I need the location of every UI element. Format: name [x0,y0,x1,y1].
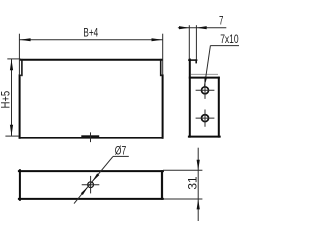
hole centreline horizontal [82,184,100,186]
31 arrow bottom (outside, pointing up) [197,199,200,209]
H+5 dimension line [11,59,13,136]
hole centreline vertical [90,176,92,194]
H+5 arrow bottom [10,125,13,136]
B+4 dimension line [19,39,162,41]
lower-right edge [162,75,164,137]
Ø7 leader line [74,156,113,203]
step jog left [20,74,22,76]
slot 7x10 on bottom edge [81,135,99,138]
bottom edge [19,137,164,139]
7 arrow right (outside) [196,26,206,29]
7x10 leader line [204,46,210,87]
bracket slot hole lower [202,115,209,122]
centreline vertical lower [204,110,206,127]
Ø7 arrow lower [81,187,88,196]
bracket body top edge [190,77,219,79]
31 extension line bottom [163,198,202,200]
7-dim extension line left [188,25,190,59]
Ø7 leader shoulder [113,155,129,157]
svg-text:7: 7 [219,14,224,28]
centreline horizontal upper [196,89,215,91]
7 dimension line [178,27,226,29]
bottom view left edge [19,170,21,200]
front view upper-left edge [21,60,23,76]
bracket hook right lip [195,60,197,63]
bottom view bottom edge [19,198,163,200]
7 arrow left (outside) [179,26,189,29]
B+4 arrow right [152,38,163,41]
7-dim extension line right [195,25,197,60]
bracket slot hole upper [202,87,209,94]
svg-text:31: 31 [185,176,199,189]
centreline vertical upper [204,82,206,99]
front view upper-right edge [160,60,162,76]
centreline horizontal lower [196,117,215,119]
lower-left edge [19,75,21,137]
31 extension line top [163,169,202,171]
svg-text:Ø7: Ø7 [115,143,127,157]
7x10 leader shoulder [210,45,239,47]
bracket hidden bend line [191,73,218,75]
bracket bottom edge [189,136,220,138]
bottom view top edge [19,170,163,172]
Ø7 arrow upper [92,173,99,182]
step jog right [161,74,163,76]
bracket hook top bar [189,59,197,61]
svg-text:H+5: H+5 [0,91,13,109]
H+5 arrow top [10,59,13,70]
bottom view right wall [161,170,163,200]
svg-text:B+4: B+4 [83,26,98,40]
B+4 extension line right [162,34,164,75]
7x10 leader arrow [204,77,207,87]
bracket right edge [218,78,220,137]
31 arrow top (outside, pointing down) [197,160,200,170]
bracket left edge [189,60,191,137]
slot centre tick [90,132,92,142]
B+4 extension line left [18,34,20,75]
31 dimension line [197,148,199,221]
hole Ø7 circle [88,182,94,188]
svg-text:7x10: 7x10 [220,32,239,46]
front view top edge [21,59,162,61]
B+4 arrow left [20,38,31,41]
H+5 extension line top [7,58,20,60]
H+5 extension line bottom [5,135,19,137]
